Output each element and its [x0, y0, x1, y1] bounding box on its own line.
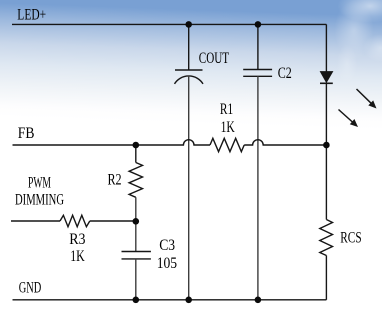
wire R3 to node: [90, 220, 136, 222]
node top COUT junction: [185, 21, 192, 28]
svg-text:C2: C2: [278, 65, 292, 82]
svg-text:COUT: COUT: [199, 50, 229, 67]
wire C2 branch upper lead: [257, 24, 259, 69]
capacitor C2: [243, 70, 272, 77]
svg-text:C3: C3: [159, 237, 175, 254]
svg-text:1K: 1K: [221, 119, 236, 136]
wire C3 upper lead: [135, 221, 137, 251]
wire R2 lower lead: [135, 197, 137, 221]
svg-text:R2: R2: [108, 172, 122, 189]
wire FB right segment with hop over C2 branch: [244, 140, 326, 145]
svg-text:LED+: LED+: [17, 7, 46, 24]
svg-text:1K: 1K: [70, 248, 85, 265]
wire R2 upper lead: [135, 145, 137, 163]
wire LED cathode to RCS: [325, 83, 327, 219]
svg-text:PWM: PWM: [28, 174, 51, 191]
node GND COUT junction: [185, 297, 192, 304]
capacitor C3: [122, 252, 151, 259]
arrow LED light ray 2: [339, 110, 359, 128]
resistor RCS: [320, 220, 333, 256]
svg-text:DIMMING: DIMMING: [15, 192, 64, 209]
wire C3 lower lead: [135, 259, 137, 300]
wire GND rail: [13, 299, 327, 301]
resistor R3: [60, 215, 90, 226]
wire LED+ top rail: [12, 23, 326, 25]
svg-text:105: 105: [157, 255, 177, 272]
arrow LED light ray 1: [357, 89, 377, 109]
svg-text:R3: R3: [69, 231, 85, 248]
svg-text:R1: R1: [220, 101, 233, 118]
svg-text:GND: GND: [19, 279, 42, 296]
diode D1 LED: [320, 72, 333, 84]
resistor R2: [129, 163, 142, 198]
wire C2 branch lower lead: [257, 76, 259, 299]
node FB right junction: [323, 142, 330, 149]
node FB R2 junction: [133, 142, 140, 149]
wire COUT branch lower lead: [188, 76, 190, 300]
wire right branch top lead: [325, 24, 327, 71]
wire PWM input: [11, 220, 60, 222]
node top C2 junction: [255, 21, 262, 28]
capacitor COUT: [175, 70, 204, 84]
wire FB left segment with hop over COUT branch: [13, 140, 211, 145]
node R2 R3 C3 junction: [133, 218, 140, 225]
wire COUT branch upper lead: [188, 24, 190, 70]
resistor R1: [210, 138, 244, 151]
wire RCS to GND corner: [325, 256, 327, 300]
node GND C2 junction: [255, 297, 262, 304]
svg-text:RCS: RCS: [340, 229, 361, 246]
node GND C3 junction: [133, 297, 140, 304]
svg-text:FB: FB: [18, 125, 35, 142]
